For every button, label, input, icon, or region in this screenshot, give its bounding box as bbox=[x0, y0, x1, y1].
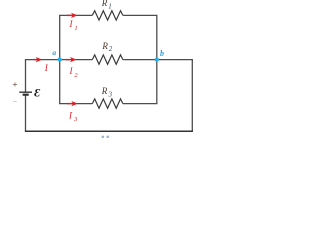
svg-text:R: R bbox=[101, 86, 108, 96]
resistor R1 zigzag bbox=[92, 11, 123, 20]
wire: riser vertical through node a (row1 to row3) bbox=[59, 15, 61, 103]
wire: vertical from top-right corner down through node b to row 3 bbox=[156, 15, 158, 103]
svg-text:Ɛ: Ɛ bbox=[34, 88, 40, 100]
current arrow I1 (head) bbox=[71, 13, 78, 18]
wire: bottom horizontal bbox=[25, 130, 193, 132]
wire: left vertical from battery bottom plate down to bottom wire bbox=[25, 95, 27, 132]
wire: row 3 right lead from R3 to node-b vertical bbox=[123, 103, 157, 105]
svg-text:3: 3 bbox=[108, 90, 113, 98]
current arrow I1 (tail) bbox=[67, 14, 72, 16]
wire: row 2 left lead node a to R2 bbox=[60, 59, 93, 61]
current arrow I2 (head) bbox=[70, 57, 77, 62]
current arrow I (tail) bbox=[34, 59, 38, 61]
wire: row 2 from node b to outer right wire bbox=[157, 59, 193, 61]
wire: row 1 right lead from R1 to top-right corner bbox=[123, 14, 157, 16]
wire: left vertical from battery top plate up to row 2 bbox=[25, 60, 27, 93]
svg-text:–: – bbox=[13, 98, 17, 105]
wire: row 1 left lead to R1 bbox=[59, 14, 92, 16]
current arrow I2 (tail) bbox=[66, 59, 71, 61]
battery: long (+) plate bbox=[19, 91, 32, 93]
svg-text:R: R bbox=[101, 41, 108, 51]
node a dot bbox=[58, 57, 62, 61]
node b dot bbox=[155, 57, 159, 61]
svg-text:1: 1 bbox=[74, 25, 77, 32]
wire: outer right vertical down to bottom wire bbox=[191, 60, 193, 132]
wire: row 2 right lead from R2 to node b bbox=[123, 59, 157, 61]
svg-text:R: R bbox=[101, 0, 108, 8]
svg-text:b: b bbox=[160, 49, 164, 58]
battery: short (-) plate bbox=[23, 94, 29, 96]
resistor R2 zigzag bbox=[92, 55, 123, 64]
svg-text:+: + bbox=[13, 79, 18, 89]
current arrow I3 (head) bbox=[71, 101, 78, 106]
resistor R3 zigzag bbox=[92, 99, 123, 108]
current arrow I3 (tail) bbox=[67, 103, 72, 105]
svg-text:3: 3 bbox=[73, 116, 78, 123]
current arrow I (head) bbox=[36, 57, 43, 62]
svg-text:1: 1 bbox=[108, 2, 112, 10]
svg-text:a: a bbox=[52, 48, 56, 57]
wire: left horizontal from battery wire to node a bbox=[25, 59, 60, 61]
wire: row 3 left lead to R3 bbox=[59, 103, 92, 105]
caption fragment (cut-off text at bottom edge) bbox=[102, 136, 105, 138]
svg-text:2: 2 bbox=[109, 45, 113, 53]
